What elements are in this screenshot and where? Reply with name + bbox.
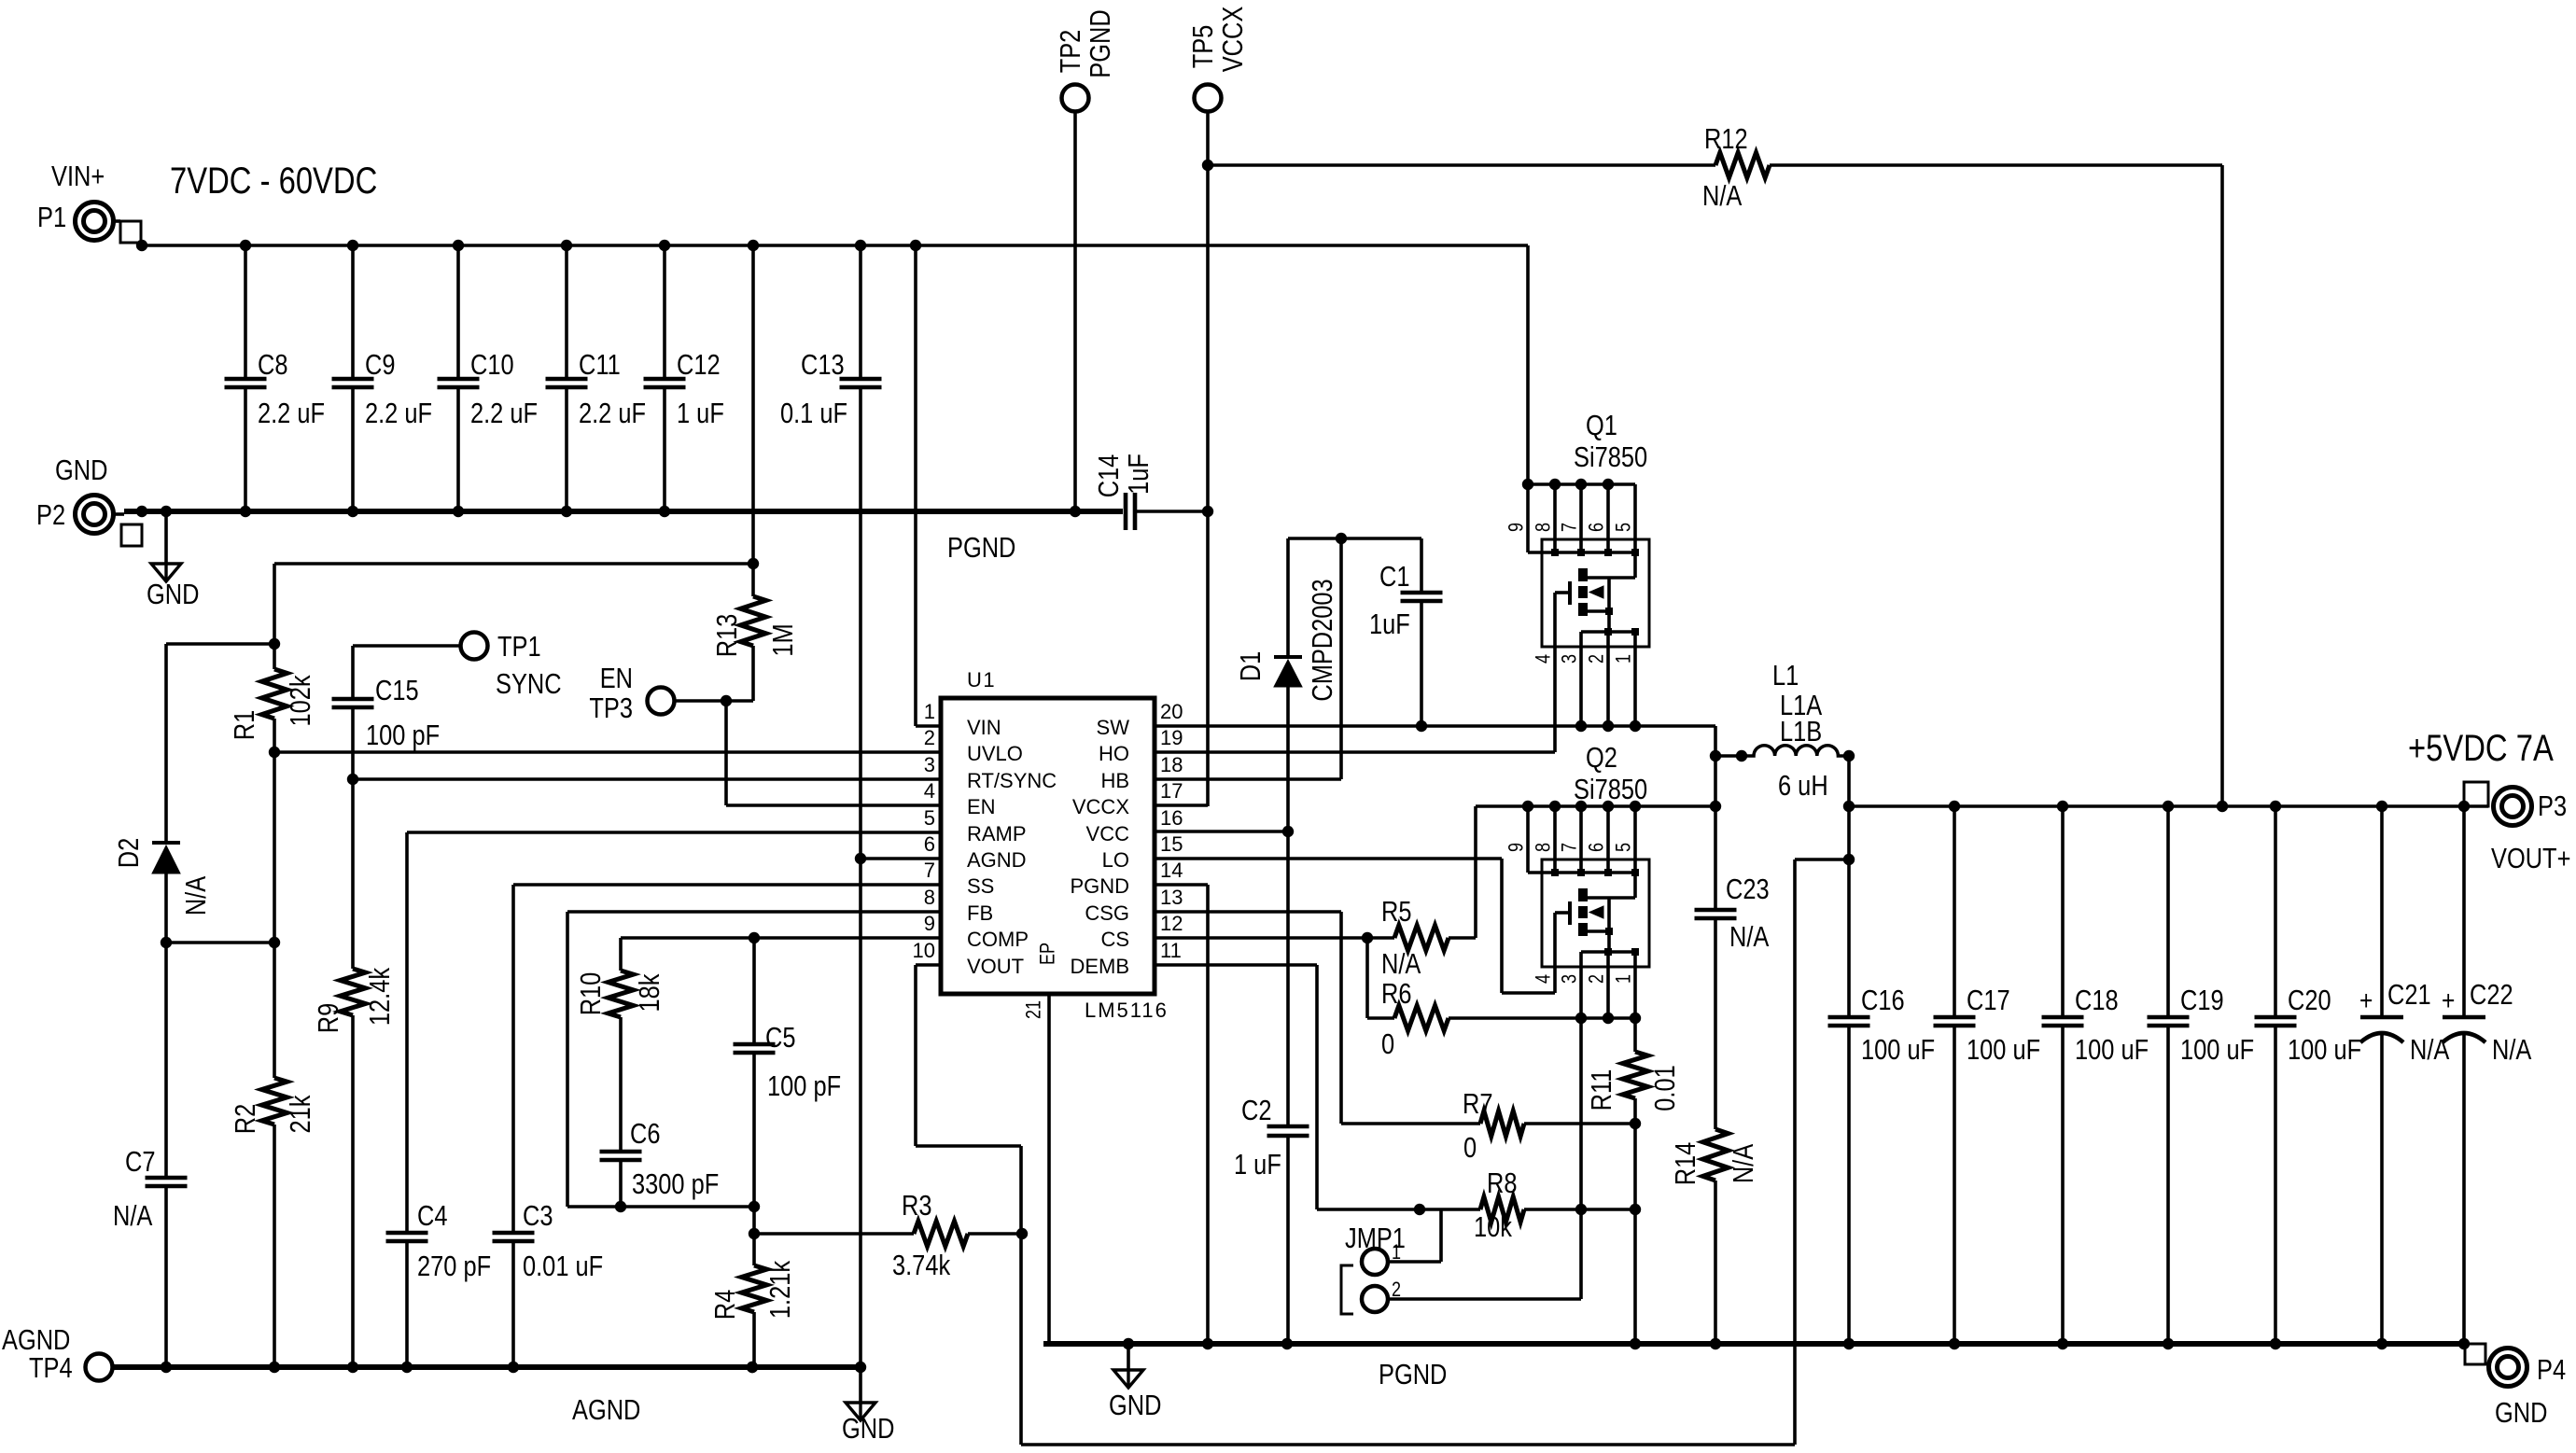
svg-text:0.01 uF: 0.01 uF: [523, 1250, 603, 1283]
test point TP5 VCCX: [1187, 7, 1250, 806]
svg-text:0: 0: [1381, 1028, 1394, 1061]
svg-text:VCC: VCC: [1086, 822, 1130, 845]
svg-text:7: 7: [1559, 843, 1581, 852]
svg-text:D1: D1: [1235, 651, 1267, 681]
svg-text:100 uF: 100 uF: [2180, 1034, 2254, 1067]
svg-text:13: 13: [1160, 886, 1183, 909]
svg-text:PGND: PGND: [1070, 874, 1129, 898]
wire D2 to R1 bottom: [166, 937, 280, 948]
svg-text:TP2: TP2: [1055, 30, 1087, 74]
capacitor C2: [1234, 1095, 1309, 1350]
transistor Q2 Si7850: [1476, 742, 1715, 1018]
wire VIN to R1/R13: [269, 558, 759, 650]
svg-text:GND: GND: [2495, 1397, 2547, 1430]
svg-text:R2: R2: [230, 1104, 262, 1134]
wire RT/SYNC pin3: [353, 777, 941, 781]
svg-text:C4: C4: [417, 1200, 447, 1233]
svg-text:CMPD2003: CMPD2003: [1307, 579, 1339, 701]
svg-text:8: 8: [1533, 523, 1555, 532]
svg-text:C7: C7: [125, 1146, 155, 1179]
svg-text:TP3: TP3: [589, 692, 633, 725]
svg-text:UVLO: UVLO: [967, 742, 1023, 765]
svg-text:P4: P4: [2537, 1354, 2566, 1387]
resistor R13: [675, 245, 800, 706]
svg-text:C5: C5: [765, 1022, 795, 1055]
svg-text:AGND: AGND: [967, 848, 1027, 872]
wire LO: [1155, 859, 1555, 993]
svg-text:9: 9: [1505, 843, 1528, 852]
svg-text:9: 9: [924, 912, 935, 935]
svg-text:100 pF: 100 pF: [366, 720, 440, 752]
svg-text:C6: C6: [630, 1118, 660, 1151]
ground at P2: [147, 511, 199, 611]
svg-text:R7: R7: [1463, 1088, 1492, 1121]
connector P2 GND: [36, 454, 147, 546]
wire SW node: [1155, 720, 1721, 812]
resistor R10: [575, 938, 666, 1151]
svg-text:5: 5: [1613, 523, 1635, 532]
svg-text:R5: R5: [1381, 896, 1411, 929]
resistor R6: [1367, 938, 1641, 1061]
svg-text:1: 1: [924, 700, 935, 723]
diode D2: [113, 644, 274, 948]
svg-text:VIN: VIN: [967, 716, 1001, 739]
capacitor C17: [1934, 806, 2041, 1349]
svg-text:10: 10: [913, 939, 935, 962]
svg-text:0: 0: [1463, 1132, 1477, 1165]
svg-text:D2: D2: [113, 838, 146, 868]
svg-text:DEMB: DEMB: [1070, 955, 1129, 978]
svg-text:2: 2: [1586, 974, 1608, 984]
svg-text:C1: C1: [1379, 561, 1409, 594]
svg-text:VOUT: VOUT: [967, 955, 1024, 978]
svg-text:VCCX: VCCX: [1072, 795, 1129, 818]
svg-text:SW: SW: [1097, 716, 1130, 739]
svg-text:R10: R10: [575, 972, 608, 1016]
wire PGND pin14: [1155, 885, 1213, 1349]
svg-text:CSG: CSG: [1085, 901, 1129, 925]
transistor Q1 Si7850: [1505, 245, 1649, 752]
svg-text:7: 7: [1559, 523, 1581, 532]
svg-text:+5VDC 7A: +5VDC 7A: [2408, 727, 2554, 769]
svg-text:C21: C21: [2387, 979, 2431, 1012]
capacitor C9: [332, 245, 433, 511]
wire UVLO pin2: [274, 750, 941, 754]
capacitor C1: [1369, 538, 1443, 726]
svg-text:R9: R9: [313, 1003, 345, 1033]
svg-text:19: 19: [1160, 726, 1183, 749]
svg-text:C9: C9: [365, 349, 395, 382]
svg-text:SS: SS: [967, 874, 994, 898]
svg-text:7: 7: [924, 859, 935, 882]
svg-text:L1B: L1B: [1780, 716, 1822, 748]
svg-text:GND: GND: [1109, 1390, 1161, 1422]
svg-text:11: 11: [1160, 939, 1182, 962]
svg-text:270 pF: 270 pF: [417, 1250, 491, 1283]
resistor R3: [754, 1190, 1028, 1282]
svg-text:0.1 uF: 0.1 uF: [780, 398, 847, 430]
svg-text:C18: C18: [2075, 985, 2119, 1017]
svg-text:GND: GND: [147, 579, 199, 611]
svg-text:17: 17: [1160, 779, 1183, 803]
svg-text:L1: L1: [1772, 660, 1799, 692]
svg-text:4: 4: [924, 779, 935, 803]
svg-text:18: 18: [1160, 753, 1183, 776]
svg-text:N/A: N/A: [1728, 1144, 1760, 1183]
svg-text:Q1: Q1: [1586, 410, 1617, 442]
svg-text:C19: C19: [2180, 985, 2224, 1017]
svg-text:14: 14: [1160, 859, 1183, 882]
svg-text:C17: C17: [1967, 985, 2010, 1017]
capacitor C18: [2042, 806, 2149, 1349]
capacitor C7: [113, 943, 188, 1367]
svg-text:VOUT+: VOUT+: [2491, 843, 2570, 875]
svg-text:LM5116: LM5116: [1085, 999, 1169, 1022]
resistor R14: [1670, 1129, 1760, 1349]
svg-text:N/A: N/A: [113, 1200, 152, 1233]
svg-text:C12: C12: [677, 349, 721, 382]
svg-text:20: 20: [1160, 700, 1183, 723]
svg-text:9: 9: [1505, 523, 1528, 532]
wire Q2 source to R8: [1579, 1018, 1583, 1209]
svg-text:5: 5: [1613, 843, 1635, 852]
wire AGND rail: [113, 1362, 866, 1373]
capacitor C21 polarized: [2359, 806, 2449, 1349]
test point TP4 AGND: [2, 1324, 113, 1385]
svg-text:GND: GND: [55, 454, 107, 487]
svg-text:1 uF: 1 uF: [677, 398, 724, 430]
svg-text:4: 4: [1533, 974, 1555, 984]
svg-text:N/A: N/A: [180, 876, 213, 915]
capacitor C14: [1093, 454, 1213, 530]
svg-text:2.2 uF: 2.2 uF: [470, 398, 538, 430]
connector P1 VIN+: [37, 161, 147, 252]
svg-text:C3: C3: [523, 1200, 553, 1233]
capacitor C11: [546, 245, 647, 511]
diode D1 CMPD2003: [1235, 538, 1339, 1125]
svg-text:COMP: COMP: [967, 928, 1029, 951]
svg-text:8: 8: [1533, 843, 1555, 852]
wire VCCX pin17: [1155, 803, 1208, 807]
wire VOUT rail: [1843, 801, 2488, 812]
svg-text:Q2: Q2: [1586, 742, 1617, 775]
wire EN to pin4: [726, 701, 941, 805]
svg-text:100 uF: 100 uF: [2288, 1034, 2361, 1067]
svg-text:1uF: 1uF: [1369, 608, 1410, 641]
wire COMP pin9: [621, 932, 941, 943]
svg-text:VCCX: VCCX: [1217, 7, 1250, 73]
wire VIN rail: [141, 240, 1528, 251]
svg-text:C11: C11: [579, 349, 621, 382]
svg-text:100 pF: 100 pF: [767, 1070, 841, 1103]
svg-text:102k: 102k: [285, 675, 317, 727]
resistor R5: [1367, 896, 1476, 981]
svg-text:EN: EN: [600, 663, 633, 695]
svg-text:2.2 uF: 2.2 uF: [365, 398, 432, 430]
svg-text:SYNC: SYNC: [496, 668, 562, 701]
svg-text:21: 21: [1023, 1000, 1045, 1019]
resistor R7: [1341, 1088, 1635, 1165]
svg-text:+: +: [2359, 985, 2373, 1016]
svg-text:HB: HB: [1100, 769, 1129, 792]
svg-text:RT/SYNC: RT/SYNC: [967, 769, 1057, 792]
text PGND net label: [947, 532, 1015, 565]
resistor R1: [229, 644, 317, 758]
svg-text:2: 2: [924, 726, 935, 749]
svg-text:N/A: N/A: [2410, 1034, 2449, 1067]
resistor R12: [1208, 123, 2222, 806]
wire R11 to PGND: [1630, 1124, 1641, 1349]
svg-text:1uF: 1uF: [1123, 454, 1155, 495]
capacitor C5: [734, 938, 842, 1212]
test point TP2 PGND: [1055, 9, 1117, 511]
wire CS: [1155, 932, 1373, 943]
svg-text:2: 2: [1586, 654, 1608, 664]
capacitor C4: [386, 1176, 492, 1367]
inductor L1: [1742, 660, 1855, 806]
svg-text:C15: C15: [375, 675, 419, 707]
svg-text:TP5: TP5: [1187, 25, 1220, 69]
svg-text:+: +: [2442, 985, 2455, 1016]
svg-text:R12: R12: [1704, 123, 1748, 156]
svg-text:R13: R13: [711, 614, 744, 658]
svg-text:TP4: TP4: [29, 1352, 73, 1385]
svg-text:P3: P3: [2538, 790, 2567, 823]
svg-text:C20: C20: [2288, 985, 2331, 1017]
text output voltage: [2408, 727, 2554, 769]
capacitor C10: [438, 245, 539, 511]
svg-text:R14: R14: [1670, 1142, 1702, 1186]
wire FB node: [567, 1207, 760, 1239]
capacitor C22 polarized: [2442, 806, 2531, 1349]
text PGND bottom label: [1379, 1359, 1447, 1391]
wire CSG: [1155, 912, 1341, 1124]
svg-text:1: 1: [1613, 654, 1635, 664]
svg-text:P2: P2: [36, 499, 65, 532]
wire VOUT sense: [916, 854, 1855, 1445]
svg-text:VIN+: VIN+: [51, 161, 105, 193]
svg-text:C14: C14: [1093, 454, 1126, 498]
svg-text:16: 16: [1160, 806, 1183, 830]
svg-text:0.01: 0.01: [1649, 1065, 1682, 1111]
capacitor C12: [644, 245, 724, 511]
svg-text:N/A: N/A: [2492, 1034, 2531, 1067]
svg-text:6: 6: [1586, 523, 1608, 532]
svg-text:EP: EP: [1037, 943, 1059, 965]
connector P3 VOUT+: [2464, 782, 2570, 875]
capacitor C16: [1828, 806, 1936, 1349]
svg-text:R4: R4: [709, 1290, 742, 1320]
connector P4 GND: [2465, 1344, 2566, 1430]
wire VCC pin16: [1155, 826, 1294, 837]
svg-text:Si7850: Si7850: [1574, 441, 1647, 474]
svg-text:R3: R3: [902, 1190, 931, 1222]
test point TP1 SYNC: [353, 631, 562, 701]
capacitor C19: [2148, 806, 2255, 1349]
capacitor C6: [600, 1118, 720, 1213]
wire DEMB: [1155, 965, 1317, 1209]
svg-text:12: 12: [1160, 912, 1183, 935]
svg-text:LO: LO: [1102, 848, 1129, 872]
wire SS pin7: [513, 885, 941, 1176]
svg-text:C8: C8: [258, 349, 287, 382]
svg-text:N/A: N/A: [1729, 921, 1769, 954]
svg-text:N/A: N/A: [1702, 180, 1742, 213]
svg-text:C16: C16: [1861, 985, 1905, 1017]
text AGND net label: [572, 1394, 640, 1427]
resistor R4: [709, 1234, 797, 1373]
svg-text:C13: C13: [801, 349, 845, 382]
svg-text:2.2 uF: 2.2 uF: [258, 398, 325, 430]
svg-text:3: 3: [1559, 974, 1581, 984]
wire RAMP pin5: [407, 832, 941, 1176]
svg-text:8: 8: [924, 886, 935, 909]
svg-text:C22: C22: [2470, 979, 2513, 1012]
capacitor C8: [225, 245, 326, 511]
svg-text:AGND: AGND: [572, 1394, 640, 1427]
IC U1 LM5116: [913, 668, 1183, 1022]
svg-text:C23: C23: [1726, 873, 1770, 906]
wire HB: [1155, 533, 1347, 779]
svg-text:100 uF: 100 uF: [2075, 1034, 2149, 1067]
resistor R8: [1317, 1167, 1641, 1244]
capacitor C23 snubber: [1695, 806, 1770, 1129]
wire HO: [1155, 750, 1555, 754]
svg-text:HO: HO: [1099, 742, 1129, 765]
resistor R11: [1586, 1018, 1682, 1129]
svg-text:FB: FB: [967, 901, 993, 925]
ground at AGND rail: [842, 1367, 894, 1446]
wire PGND bottom rail: [1043, 1338, 2465, 1349]
svg-text:EN: EN: [967, 795, 996, 818]
svg-text:3: 3: [1559, 654, 1581, 664]
svg-text:Si7850: Si7850: [1574, 774, 1647, 806]
svg-text:3300 pF: 3300 pF: [632, 1168, 719, 1201]
svg-text:1M: 1M: [767, 623, 800, 656]
svg-text:R1: R1: [229, 710, 261, 740]
svg-text:100 uF: 100 uF: [1967, 1034, 2040, 1067]
svg-text:1: 1: [1613, 974, 1635, 984]
svg-text:RAMP: RAMP: [967, 822, 1027, 845]
svg-text:R8: R8: [1487, 1167, 1517, 1200]
wire PGND top rail: [124, 506, 1123, 517]
svg-text:6: 6: [924, 832, 935, 856]
svg-text:5: 5: [924, 806, 935, 830]
svg-text:15: 15: [1160, 832, 1183, 856]
pin 21 EP pad: [1023, 943, 1059, 1344]
svg-text:PGND: PGND: [947, 532, 1015, 565]
svg-text:GND: GND: [842, 1413, 894, 1446]
svg-text:1.21k: 1.21k: [764, 1260, 797, 1319]
wire HB node: [1288, 537, 1421, 540]
svg-text:N/A: N/A: [1381, 948, 1421, 981]
capacitor C15: [332, 646, 441, 785]
text input voltage range: [170, 160, 377, 202]
wire SW to L1: [1715, 750, 1747, 761]
capacitor C13: [780, 245, 882, 1367]
svg-text:100 uF: 100 uF: [1861, 1034, 1935, 1067]
svg-text:CS: CS: [1100, 928, 1129, 951]
svg-text:R11: R11: [1586, 1069, 1618, 1111]
svg-text:PGND: PGND: [1379, 1359, 1447, 1391]
svg-text:10k: 10k: [1474, 1211, 1513, 1244]
svg-text:P1: P1: [37, 202, 66, 234]
svg-text:6 uH: 6 uH: [1778, 770, 1828, 803]
ground at PGND rail: [1109, 1344, 1161, 1422]
svg-text:12.4k: 12.4k: [364, 967, 397, 1026]
svg-text:PGND: PGND: [1085, 9, 1117, 77]
svg-text:3.74k: 3.74k: [892, 1250, 951, 1282]
test point TP3 EN: [589, 663, 674, 725]
svg-text:18k: 18k: [634, 973, 666, 1013]
svg-text:TP1: TP1: [497, 631, 541, 664]
jumper JMP1: [1341, 1209, 1581, 1314]
svg-text:7VDC - 60VDC: 7VDC - 60VDC: [170, 160, 377, 202]
svg-text:6: 6: [1586, 843, 1608, 852]
svg-text:3: 3: [924, 753, 935, 776]
svg-text:C2: C2: [1241, 1095, 1271, 1127]
wire FB pin8: [567, 912, 941, 1207]
capacitor C20: [2255, 806, 2362, 1349]
svg-text:1 uF: 1 uF: [1234, 1149, 1281, 1181]
capacitor C3: [493, 1176, 604, 1367]
svg-text:C10: C10: [470, 349, 514, 382]
resistor R9: [313, 779, 397, 1367]
wire AGND pin6: [855, 853, 941, 864]
wire VIN pin1: [916, 245, 941, 726]
svg-text:2.2 uF: 2.2 uF: [579, 398, 646, 430]
resistor R2: [230, 752, 317, 1367]
svg-text:R6: R6: [1381, 978, 1411, 1011]
svg-text:21k: 21k: [285, 1095, 317, 1134]
svg-text:U1: U1: [967, 668, 996, 692]
svg-text:4: 4: [1533, 654, 1555, 664]
